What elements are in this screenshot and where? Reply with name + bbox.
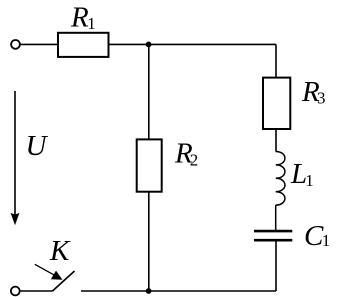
svg-text:1: 1 [87, 14, 96, 33]
wire junction down to R2 [148, 44, 150, 139]
terminal top-left [11, 40, 20, 49]
switch actuation arrow [35, 264, 54, 275]
svg-text:3: 3 [317, 89, 326, 108]
source arrow U head [11, 213, 20, 226]
resistor R2 [137, 139, 162, 191]
wire R2 to bottom junction [148, 192, 150, 291]
wire R1 to top-right corner [109, 43, 277, 45]
node junction top [146, 42, 152, 48]
inductor L1 [276, 152, 285, 206]
wire C1 to bottom-right corner [275, 242, 277, 292]
svg-text:1: 1 [322, 231, 331, 250]
wire terminal to switch [20, 290, 53, 292]
node junction bottom [146, 288, 152, 294]
wire R3 to L1 [275, 129, 277, 152]
resistor R3 [263, 78, 290, 129]
source arrow U line [14, 91, 16, 216]
svg-text:K: K [49, 235, 71, 267]
svg-text:1: 1 [305, 171, 314, 190]
resistor R1 [58, 33, 109, 57]
svg-text:2: 2 [190, 151, 199, 170]
capacitor C1 top plate [254, 230, 292, 233]
svg-text:R: R [70, 1, 89, 33]
terminal bottom-left [11, 287, 20, 296]
switch K blade [53, 271, 75, 291]
wire top-right corner down to R3 [275, 44, 277, 77]
wire terminal to R1 [20, 43, 58, 45]
svg-text:U: U [26, 130, 49, 162]
wire L1 to C1 [275, 205, 277, 231]
bottom wire [81, 290, 276, 292]
capacitor C1 bottom plate [254, 239, 292, 242]
